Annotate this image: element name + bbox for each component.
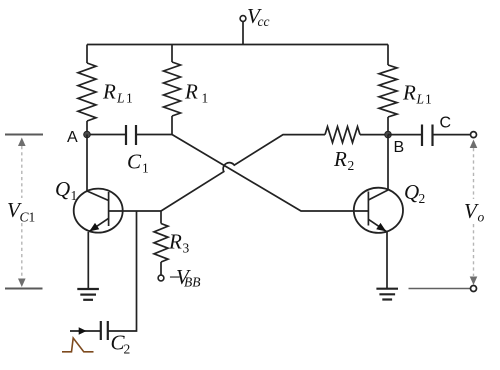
svg-text:R: R bbox=[102, 80, 116, 104]
svg-text:2: 2 bbox=[124, 342, 131, 357]
svg-text:R: R bbox=[184, 80, 198, 104]
svg-text:A: A bbox=[67, 129, 78, 146]
transistor Q2 bbox=[354, 188, 403, 233]
trigger pulse waveform bbox=[62, 338, 94, 352]
svg-text:BB: BB bbox=[184, 275, 201, 290]
resistor R3 bbox=[160, 211, 162, 224]
capacitor C bbox=[421, 125, 423, 147]
svg-text:R: R bbox=[168, 230, 182, 254]
wire Q1 emitter to ground bbox=[87, 232, 89, 289]
wire Vcc tap bbox=[242, 21, 244, 44]
svg-text:1: 1 bbox=[29, 210, 36, 225]
capacitor C1 bbox=[125, 125, 127, 145]
resistor R1 bbox=[171, 45, 173, 63]
terminal output top bbox=[471, 132, 477, 138]
svg-text:o: o bbox=[478, 210, 485, 225]
svg-text:1: 1 bbox=[142, 161, 149, 176]
svg-text:cc: cc bbox=[258, 14, 270, 29]
svg-text:L: L bbox=[116, 91, 125, 106]
VC1 measure top line bbox=[5, 134, 43, 136]
node A bbox=[84, 131, 91, 138]
wire A to Q1 collector bbox=[86, 135, 88, 192]
trigger input arrow bbox=[79, 327, 87, 335]
svg-text:C: C bbox=[127, 150, 142, 174]
svg-text:Q: Q bbox=[55, 177, 70, 201]
svg-text:R: R bbox=[402, 81, 416, 105]
resistor RL1 right bbox=[387, 45, 389, 66]
VC1 dashed arrow bbox=[21, 146, 23, 198]
svg-text:3: 3 bbox=[183, 241, 190, 256]
wire B to Q2 collector bbox=[387, 135, 389, 190]
svg-text:1: 1 bbox=[126, 91, 133, 106]
terminal -VBB bbox=[158, 275, 164, 281]
svg-text:1: 1 bbox=[202, 91, 209, 106]
ground Q1 bbox=[77, 288, 99, 290]
svg-text:B: B bbox=[394, 139, 405, 156]
wire B to capacitor C bbox=[388, 134, 422, 136]
wire node A to C1 bbox=[87, 134, 126, 136]
svg-text:Q: Q bbox=[404, 180, 419, 204]
resistor R2 bbox=[325, 127, 360, 143]
transistor Q1 bbox=[74, 189, 123, 233]
node B bbox=[385, 131, 392, 138]
wire C2 to Q1 base bbox=[108, 211, 137, 331]
svg-text:R: R bbox=[333, 147, 347, 171]
svg-text:2: 2 bbox=[419, 191, 426, 206]
Vo dashed arrow bbox=[473, 148, 475, 199]
VC1 measure bottom line bbox=[5, 288, 43, 290]
svg-text:C: C bbox=[440, 115, 452, 132]
capacitor C2 bbox=[107, 321, 109, 340]
wire output bottom reference bbox=[409, 288, 471, 290]
resistor RL1 left bbox=[86, 45, 88, 64]
terminal output bottom bbox=[471, 286, 477, 292]
svg-text:L: L bbox=[416, 92, 425, 107]
wire Q2 emitter to ground bbox=[386, 232, 388, 289]
wire top supply bus bbox=[87, 44, 388, 46]
terminal Vcc bbox=[240, 16, 246, 22]
svg-text:1: 1 bbox=[425, 92, 432, 107]
wire cross-couple R1 to Q2 base bbox=[172, 135, 368, 212]
ground Q2 bbox=[376, 288, 398, 290]
wire cross-couple Q1 base to R2 (with hop) bbox=[161, 135, 325, 211]
svg-text:2: 2 bbox=[348, 158, 355, 173]
svg-text:1: 1 bbox=[71, 188, 78, 203]
